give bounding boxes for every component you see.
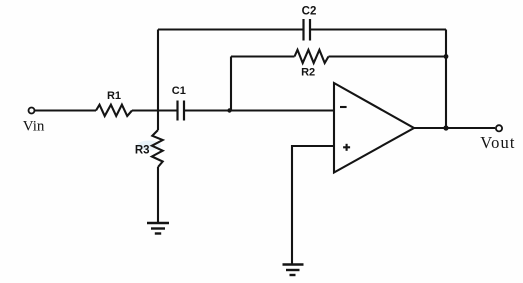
svg-text:Vout: Vout xyxy=(480,133,515,152)
svg-text:Vin: Vin xyxy=(23,119,45,135)
svg-text:C1: C1 xyxy=(172,85,186,97)
svg-text:R2: R2 xyxy=(301,67,315,79)
svg-text:R1: R1 xyxy=(107,90,121,102)
svg-text:C2: C2 xyxy=(302,6,317,18)
svg-text:R3: R3 xyxy=(135,144,150,156)
